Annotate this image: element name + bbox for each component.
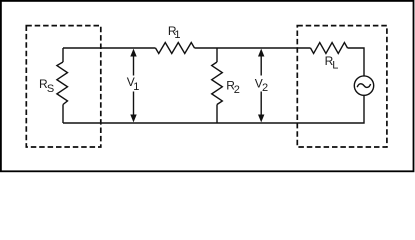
load network dashed box	[297, 26, 387, 147]
label RL	[325, 54, 339, 72]
wire R2 vertical stubs	[216, 48, 218, 123]
svg-text:2: 2	[262, 82, 268, 94]
resistor R2	[212, 62, 223, 105]
wire top (RS top to R1 left)	[63, 47, 156, 49]
svg-text:S: S	[47, 83, 54, 95]
resistor RL	[311, 43, 348, 54]
voltage arrow V2	[258, 49, 264, 123]
label V2	[255, 76, 268, 94]
label RS	[39, 77, 54, 95]
svg-text:2: 2	[234, 84, 240, 96]
label V1	[127, 75, 140, 93]
resistor R1	[156, 43, 195, 54]
wire bottom (RS bottom to AC source bottom)	[63, 95, 364, 123]
label R1	[168, 24, 181, 41]
svg-text:L: L	[332, 60, 338, 72]
wire RS vertical stubs	[62, 48, 64, 123]
AC source	[354, 76, 373, 95]
source network dashed box	[26, 26, 101, 147]
voltage arrow V1	[130, 49, 136, 123]
svg-text:1: 1	[133, 81, 139, 93]
wire top (RL right to AC source top)	[348, 48, 365, 76]
label R2	[226, 78, 240, 96]
resistor RS	[57, 62, 68, 105]
svg-text:1: 1	[174, 29, 180, 41]
wire top (R1 right to RL left)	[195, 47, 311, 49]
